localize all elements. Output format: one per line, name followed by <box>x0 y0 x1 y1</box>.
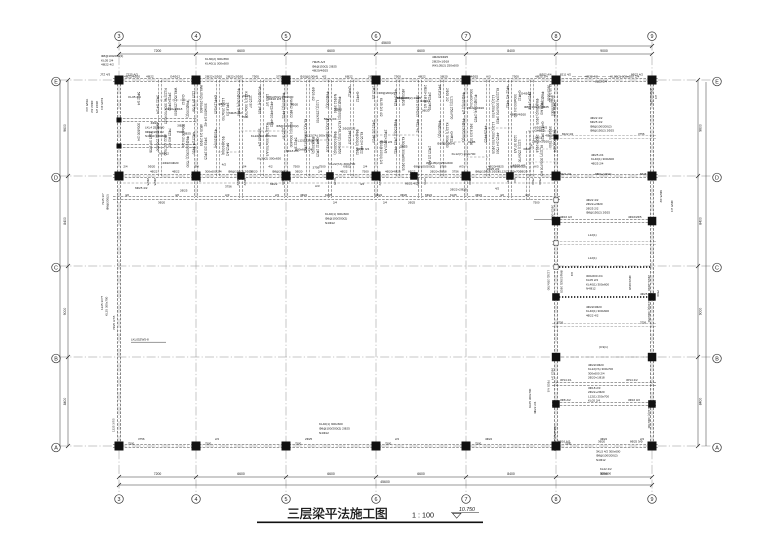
svg-text:4Φ22: 4Φ22 <box>236 178 240 186</box>
svg-text:3Φ20: 3Φ20 <box>177 124 185 128</box>
svg-text:KL12(7) 300x700: KL12(7) 300x700 <box>647 406 651 429</box>
svg-text:7500: 7500 <box>295 442 302 446</box>
svg-text:9854+(2914): 9854+(2914) <box>595 172 612 176</box>
svg-text:2Φ25 2/2: 2Φ25 2/2 <box>379 140 392 144</box>
svg-text:Φ10@100(4): Φ10@100(4) <box>437 142 455 146</box>
svg-text:1 : 100: 1 : 100 <box>412 511 434 520</box>
svg-text:L12(1) 250x700: L12(1) 250x700 <box>517 140 521 163</box>
svg-text:Φ10@100(4): Φ10@100(4) <box>300 74 318 78</box>
svg-text:Φ8@150(2) 2Φ25: Φ8@150(2) 2Φ25 <box>475 169 499 173</box>
svg-text:Φ10@100(4): Φ10@100(4) <box>221 136 225 155</box>
svg-text:7500: 7500 <box>128 442 135 446</box>
svg-text:4Φ22: 4Φ22 <box>300 193 308 197</box>
svg-text:L12(1) 250x700: L12(1) 250x700 <box>547 270 551 291</box>
svg-text:7500: 7500 <box>281 178 285 185</box>
svg-text:2Φ22+2Φ20: 2Φ22+2Φ20 <box>467 106 484 110</box>
svg-text:KL05 2/4 4/2: KL05 2/4 4/2 <box>379 98 383 117</box>
svg-text:2Φ22+2Φ20: 2Φ22+2Φ20 <box>205 74 222 78</box>
svg-text:2Φ25: 2Φ25 <box>368 74 376 78</box>
svg-text:3P14 4/1: 3P14 4/1 <box>560 378 572 382</box>
svg-text:3756: 3756 <box>138 437 145 441</box>
svg-text:2/4: 2/4 <box>640 437 644 441</box>
svg-text:KL12(7) 300x700: KL12(7) 300x700 <box>452 152 476 156</box>
svg-text:2Φ22+2Φ20: 2Φ22+2Φ20 <box>226 74 243 78</box>
svg-text:B: B <box>715 356 719 362</box>
svg-text:4/2: 4/2 <box>360 182 365 186</box>
svg-text:E: E <box>54 79 58 85</box>
svg-text:2/4: 2/4 <box>123 165 128 169</box>
svg-text:7500: 7500 <box>252 74 259 78</box>
svg-text:7500: 7500 <box>385 442 392 446</box>
svg-text:KL05 2/4: KL05 2/4 <box>100 98 104 110</box>
svg-text:C: C <box>715 265 719 271</box>
svg-text:WKL05(2) 250x600: WKL05(2) 250x600 <box>156 123 160 151</box>
svg-text:KL05: KL05 <box>450 193 457 197</box>
svg-text:9600: 9600 <box>63 124 67 132</box>
svg-text:3Φ8 A/2: 3Φ8 A/2 <box>560 398 571 402</box>
svg-text:4Φ22 4/2 4Φ22: 4Φ22 4/2 4Φ22 <box>506 86 510 109</box>
svg-text:7Φ25 A/3 4/2: 7Φ25 A/3 4/2 <box>167 128 171 147</box>
svg-text:300x600 2/4: 300x600 2/4 <box>137 123 141 141</box>
svg-text:7: 7 <box>465 34 468 40</box>
svg-text:L12(1) 250x700: L12(1) 250x700 <box>315 100 319 123</box>
svg-text:3Φ18 2/3: 3Φ18 2/3 <box>286 149 299 153</box>
svg-text:2/4: 2/4 <box>275 193 279 197</box>
svg-text:4Φ22 4/2: 4Φ22 4/2 <box>586 313 599 317</box>
svg-text:3Φ18 2/3 2Φ25: 3Φ18 2/3 2Φ25 <box>203 137 207 160</box>
svg-text:4Φ22 4/2: 4Φ22 4/2 <box>416 119 420 133</box>
svg-text:6Φ25 4/2: 6Φ25 4/2 <box>311 87 315 101</box>
svg-text:6600: 6600 <box>417 472 425 476</box>
svg-text:9: 9 <box>651 497 654 503</box>
svg-text:7200: 7200 <box>154 49 162 53</box>
svg-text:2Φ25: 2Φ25 <box>305 437 313 441</box>
svg-text:2/4: 2/4 <box>242 165 247 169</box>
svg-text:2/4: 2/4 <box>195 165 200 169</box>
svg-text:4Φ22: 4Φ22 <box>150 169 158 173</box>
svg-text:8: 8 <box>555 497 558 503</box>
svg-text:Φ8@200(2): Φ8@200(2) <box>106 194 110 210</box>
svg-text:3: 3 <box>118 497 121 503</box>
svg-text:2Φ22+2Φ20: 2Φ22+2Φ20 <box>450 188 467 192</box>
svg-text:3: 3 <box>118 34 121 40</box>
svg-text:3Φ20: 3Φ20 <box>440 74 448 78</box>
svg-text:8400: 8400 <box>63 398 67 406</box>
svg-text:Φ8@100/200(2) 7500: Φ8@100/200(2) 7500 <box>185 136 189 168</box>
svg-text:1225 3/7 3756: 1225 3/7 3756 <box>148 132 152 153</box>
svg-text:3Φ18 2/3: 3Φ18 2/3 <box>348 130 352 144</box>
svg-text:3756: 3756 <box>423 178 427 185</box>
svg-text:KL05 2/4: KL05 2/4 <box>588 399 600 403</box>
svg-text:Φ8@200(2) 2/4: Φ8@200(2) 2/4 <box>462 92 466 115</box>
svg-text:A: A <box>715 445 719 451</box>
svg-text:4Φ22: 4Φ22 <box>485 437 493 441</box>
svg-text:Φ8@100/200(2): Φ8@100/200(2) <box>333 131 337 154</box>
svg-text:2/4: 2/4 <box>215 437 219 441</box>
svg-text:Φ10@100(4) 3Φ20: Φ10@100(4) 3Φ20 <box>258 86 262 114</box>
svg-text:1225 3/7 A/3: 1225 3/7 A/3 <box>513 135 517 153</box>
svg-text:4Φ22: 4Φ22 <box>378 178 382 186</box>
svg-text:2Φ22+2Φ20: 2Φ22+2Φ20 <box>551 205 555 221</box>
svg-text:3Φ20: 3Φ20 <box>422 108 430 112</box>
svg-text:LKL05ZW5-8: LKL05ZW5-8 <box>131 338 149 342</box>
svg-text:4Φ20/4Φ25: 4Φ20/4Φ25 <box>312 69 328 73</box>
svg-text:Φ8@100/200(2): Φ8@100/200(2) <box>462 118 466 141</box>
svg-text:6Φ25 4/2: 6Φ25 4/2 <box>405 181 418 185</box>
svg-text:Φ8@150(2) 2Φ25: Φ8@150(2) 2Φ25 <box>590 129 614 133</box>
svg-text:3756: 3756 <box>276 74 283 78</box>
svg-text:9: 9 <box>651 34 654 40</box>
svg-text:KL22(7A) 300x700 A/3: KL22(7A) 300x700 A/3 <box>265 124 269 157</box>
svg-text:7500: 7500 <box>656 290 660 297</box>
svg-text:KL22(7A) 300x700 3Φ20: KL22(7A) 300x700 3Φ20 <box>495 88 499 124</box>
svg-text:1225 3/7/7: 1225 3/7/7 <box>100 295 104 310</box>
svg-text:KL30(2) 300x650: KL30(2) 300x650 <box>647 300 651 323</box>
svg-text:4/2: 4/2 <box>222 163 227 167</box>
svg-text:L12(1) 250x700 2Φ25: L12(1) 250x700 2Φ25 <box>491 122 495 154</box>
svg-text:Φ8@100/200(2) 2Φ25: Φ8@100/200(2) 2Φ25 <box>319 426 350 430</box>
svg-text:KL22(7A) 300x700: KL22(7A) 300x700 <box>305 133 331 137</box>
svg-text:9000: 9000 <box>600 49 608 53</box>
svg-text:3756: 3756 <box>225 185 232 189</box>
svg-text:2Φ25: 2Φ25 <box>180 188 188 192</box>
svg-text:4Φ16 4/2: 4Φ16 4/2 <box>560 215 572 219</box>
svg-text:7Φ25 A/3: 7Φ25 A/3 <box>547 380 551 393</box>
svg-text:4/2: 4/2 <box>175 193 179 197</box>
svg-text:Φ8@100/200(2) KL05: Φ8@100/200(2) KL05 <box>337 96 341 128</box>
svg-text:3Φ20: 3Φ20 <box>291 103 299 107</box>
svg-text:300x600: 300x600 <box>600 471 611 475</box>
svg-text:2Φ25: 2Φ25 <box>400 145 408 149</box>
svg-text:9600: 9600 <box>699 124 703 132</box>
svg-text:KL30(2) 300x650 2Φ25: KL30(2) 300x650 2Φ25 <box>401 137 405 171</box>
svg-text:8222 4/2: 8222 4/2 <box>562 132 574 136</box>
svg-text:WKL05(2) 250x600: WKL05(2) 250x600 <box>432 64 459 68</box>
svg-text:6Φ25 4/2: 6Φ25 4/2 <box>229 111 242 115</box>
svg-text:Φ8@100/200(2): Φ8@100/200(2) <box>414 165 436 169</box>
svg-text:Φ8@150(2) 2Φ25 4Φ22: Φ8@150(2) 2Φ25 4Φ22 <box>394 119 398 154</box>
svg-text:3P14 4/2: 3P14 4/2 <box>626 378 638 382</box>
svg-text:2Φ25 2/2 3Φ20: 2Φ25 2/2 3Φ20 <box>372 120 376 143</box>
svg-text:KL12(7) 300x700 A/3: KL12(7) 300x700 A/3 <box>539 145 543 176</box>
svg-text:6Φ22: 6Φ22 <box>345 74 353 78</box>
svg-text:7225 3/7: 7225 3/7 <box>101 193 105 205</box>
svg-text:6Φ22: 6Φ22 <box>408 169 416 173</box>
svg-text:Φ8@200(2): Φ8@200(2) <box>379 91 395 95</box>
svg-text:4Φ22/4Φ20: 4Φ22/4Φ20 <box>628 275 632 290</box>
svg-text:4/2: 4/2 <box>125 193 129 197</box>
svg-text:300x600 2/4: 300x600 2/4 <box>469 89 473 107</box>
svg-text:7500: 7500 <box>205 442 212 446</box>
svg-text:N4Φ12: N4Φ12 <box>159 151 169 155</box>
svg-text:2/4: 2/4 <box>654 95 658 99</box>
svg-text:4Φ22: 4Φ22 <box>418 74 426 78</box>
svg-text:3Φ20: 3Φ20 <box>520 169 528 173</box>
svg-text:8: 8 <box>555 34 558 40</box>
svg-text:3756: 3756 <box>640 320 647 324</box>
svg-text:8400: 8400 <box>699 398 703 406</box>
svg-text:G4Φ12: G4Φ12 <box>170 74 180 78</box>
svg-text:KL30(2) 300x650: KL30(2) 300x650 <box>257 156 281 160</box>
svg-text:Φ8@100/200(2): Φ8@100/200(2) <box>276 124 298 128</box>
svg-text:4/2: 4/2 <box>268 165 273 169</box>
svg-text:4Φ22: 4Φ22 <box>172 169 180 173</box>
svg-text:L12(1) 250x700: L12(1) 250x700 <box>298 139 320 143</box>
svg-text:1225 3/7/5: 1225 3/7/5 <box>112 418 116 432</box>
svg-text:6Φ22: 6Φ22 <box>243 178 247 186</box>
svg-text:L12(1) 250x700: L12(1) 250x700 <box>491 95 495 118</box>
svg-text:8Φ22 4/2: 8Φ22 4/2 <box>631 73 643 77</box>
svg-text:8Φ22 4/4: 8Φ22 4/4 <box>540 73 552 77</box>
svg-text:7200: 7200 <box>154 472 162 476</box>
svg-text:4Φ22: 4Φ22 <box>600 437 608 441</box>
svg-text:6: 6 <box>375 497 378 503</box>
svg-text:6Φ25 4/2: 6Φ25 4/2 <box>659 190 663 203</box>
svg-text:2Φ20+1Φ18: 2Φ20+1Φ18 <box>588 376 605 380</box>
svg-text:5Φ22 3/4: 5Φ22 3/4 <box>551 368 555 380</box>
svg-text:4Φ22 4/2: 4Φ22 4/2 <box>101 63 114 67</box>
svg-text:4Φ20/4Φ25: 4Φ20/4Φ25 <box>462 74 478 78</box>
svg-text:1225 3/7: 1225 3/7 <box>282 127 286 140</box>
svg-text:2Φ22+2Φ20: 2Φ22+2Φ20 <box>532 140 549 144</box>
svg-text:JTZ 4/3: JTZ 4/3 <box>100 73 111 77</box>
svg-text:(0.9(1): (0.9(1) <box>599 345 608 349</box>
svg-text:KL25 300x700: KL25 300x700 <box>105 296 109 316</box>
svg-text:6600: 6600 <box>327 472 335 476</box>
svg-text:3Φ20: 3Φ20 <box>158 201 166 205</box>
svg-text:L12(1): L12(1) <box>588 233 597 237</box>
svg-text:7500: 7500 <box>533 201 540 205</box>
svg-text:3Φ20: 3Φ20 <box>148 165 156 169</box>
svg-text:8222 2/4: 8222 2/4 <box>595 80 607 84</box>
svg-text:7500: 7500 <box>362 169 369 173</box>
svg-text:7500: 7500 <box>475 442 482 446</box>
svg-text:G4Φ12: G4Φ12 <box>535 129 545 133</box>
svg-text:300x600 2/4: 300x600 2/4 <box>205 169 222 173</box>
svg-text:3Φ20: 3Φ20 <box>295 169 303 173</box>
svg-text:2Φ22+2Φ20: 2Φ22+2Φ20 <box>547 85 551 101</box>
svg-text:Φ8@200(2): Φ8@200(2) <box>438 120 442 137</box>
svg-text:G4Φ12: G4Φ12 <box>420 99 430 103</box>
svg-text:2Φ25: 2Φ25 <box>153 178 157 186</box>
svg-text:N4Φ12: N4Φ12 <box>319 431 329 435</box>
svg-text:4: 4 <box>195 34 198 40</box>
svg-text:2Φ25 2/2: 2Φ25 2/2 <box>372 86 376 100</box>
svg-text:3756: 3756 <box>440 165 447 169</box>
svg-text:4Φ25 2/4: 4Φ25 2/4 <box>591 161 604 165</box>
svg-text:N4Φ12: N4Φ12 <box>596 458 606 462</box>
svg-text:4Φ22: 4Φ22 <box>151 121 159 125</box>
svg-text:WKL05(2) 250x600: WKL05(2) 250x600 <box>174 88 178 116</box>
svg-text:4/2: 4/2 <box>198 178 202 183</box>
svg-text:KL05: KL05 <box>325 193 332 197</box>
svg-text:A/3: A/3 <box>315 184 320 188</box>
svg-text:2/4: 2/4 <box>333 201 337 205</box>
svg-text:7: 7 <box>465 497 468 503</box>
svg-text:G4Φ12: G4Φ12 <box>521 91 531 95</box>
svg-text:7500: 7500 <box>177 130 184 134</box>
svg-text:2Φ20+1Φ18 4/2: 2Φ20+1Φ18 4/2 <box>423 85 427 109</box>
svg-text:9000: 9000 <box>63 308 67 316</box>
svg-text:45600: 45600 <box>380 480 390 484</box>
svg-text:4Φ22: 4Φ22 <box>475 193 483 197</box>
svg-text:7500: 7500 <box>468 178 472 185</box>
svg-text:4/2: 4/2 <box>525 193 529 197</box>
svg-text:7Φ25 3/7/5: 7Φ25 3/7/5 <box>112 315 116 330</box>
svg-text:6600: 6600 <box>237 472 245 476</box>
svg-text:7500: 7500 <box>565 442 572 446</box>
svg-text:5525: 5525 <box>640 172 647 176</box>
svg-text:2Φ25: 2Φ25 <box>183 131 191 135</box>
svg-text:KL05: KL05 <box>468 140 476 144</box>
svg-text:7Φ25 A/3: 7Φ25 A/3 <box>85 99 89 112</box>
svg-text:A/3: A/3 <box>513 178 517 183</box>
svg-text:6Φ22: 6Φ22 <box>343 165 351 169</box>
svg-text:4Φ22 4/2: 4Φ22 4/2 <box>90 100 94 113</box>
svg-text:N4Φ12 6Φ22: N4Φ12 6Φ22 <box>289 98 293 117</box>
svg-text:L12(1) 250x700: L12(1) 250x700 <box>449 96 453 119</box>
svg-text:4Φ22: 4Φ22 <box>375 193 383 197</box>
svg-text:Φ8@200(2): Φ8@200(2) <box>272 169 288 173</box>
svg-text:4/2: 4/2 <box>506 178 510 183</box>
svg-text:6Φ22: 6Φ22 <box>270 182 278 186</box>
svg-text:C: C <box>54 265 58 271</box>
svg-text:Φ8@200(2): Φ8@200(2) <box>185 100 189 117</box>
svg-text:7225 A/3: 7225 A/3 <box>126 73 138 77</box>
svg-text:A/3: A/3 <box>225 193 230 197</box>
svg-text:3Φ18 2/3: 3Φ18 2/3 <box>95 101 99 114</box>
svg-text:L1(K1): L1(K1) <box>533 136 542 140</box>
svg-text:4Φ25 2/4: 4Φ25 2/4 <box>670 200 674 212</box>
svg-text:6600: 6600 <box>327 49 335 53</box>
svg-text:A/3: A/3 <box>570 272 574 277</box>
svg-text:6Φ22: 6Φ22 <box>425 193 433 197</box>
svg-text:Φ8@150(2) 2Φ25: Φ8@150(2) 2Φ25 <box>524 105 549 109</box>
svg-text:N4Φ12: N4Φ12 <box>586 287 596 291</box>
svg-text:4Φ20/4Φ25: 4Φ20/4Φ25 <box>484 126 488 143</box>
svg-text:4Φ22: 4Φ22 <box>340 169 348 173</box>
svg-text:4Φ22: 4Φ22 <box>218 102 226 106</box>
svg-text:2Φ25: 2Φ25 <box>408 201 416 205</box>
svg-text:Φ8@150(2) 2Φ25: Φ8@150(2) 2Φ25 <box>228 169 252 173</box>
svg-text:2Φ25: 2Φ25 <box>146 178 150 186</box>
svg-text:Φ10@100(4): Φ10@100(4) <box>214 129 218 148</box>
svg-text:Φ8@200(2): Φ8@200(2) <box>510 165 526 169</box>
svg-text:WKL05(2) 250x600: WKL05(2) 250x600 <box>267 95 294 99</box>
svg-text:2/4: 2/4 <box>383 201 387 205</box>
svg-text:3756: 3756 <box>638 132 645 136</box>
svg-text:2/4: 2/4 <box>288 178 292 183</box>
svg-text:2Φ22+2Φ20: 2Φ22+2Φ20 <box>647 275 651 291</box>
svg-text:WKL05(2) 250x600: WKL05(2) 250x600 <box>553 426 557 451</box>
svg-text:WKL05(2) 250x600: WKL05(2) 250x600 <box>199 85 203 113</box>
svg-text:KL40(1) 300x600: KL40(1) 300x600 <box>205 61 229 65</box>
svg-text:KL22(7A) 300x700: KL22(7A) 300x700 <box>251 134 277 138</box>
svg-text:4/2: 4/2 <box>495 186 500 190</box>
svg-text:6600: 6600 <box>237 49 245 53</box>
svg-text:4Φ22 4/2: 4Φ22 4/2 <box>545 133 558 137</box>
svg-text:E: E <box>715 79 719 85</box>
svg-text:4/2: 4/2 <box>500 193 504 197</box>
svg-text:KL30(2) 300x650: KL30(2) 300x650 <box>337 129 341 154</box>
svg-text:4Φ25 2/4: 4Φ25 2/4 <box>640 292 653 296</box>
svg-text:7500: 7500 <box>512 74 519 78</box>
svg-text:2Φ25: 2Φ25 <box>242 94 250 98</box>
svg-text:8400: 8400 <box>507 49 515 53</box>
svg-text:45600: 45600 <box>381 41 391 45</box>
svg-text:7500: 7500 <box>394 74 401 78</box>
svg-text:7500: 7500 <box>267 122 274 126</box>
svg-text:2Φ25 2/2: 2Φ25 2/2 <box>343 127 356 131</box>
svg-text:4Φ20/4Φ25: 4Φ20/4Φ25 <box>385 169 401 173</box>
svg-text:7500: 7500 <box>241 115 248 119</box>
svg-text:3756: 3756 <box>557 320 564 324</box>
svg-text:4Φ22/4Φ20: 4Φ22/4Φ20 <box>162 161 178 165</box>
svg-text:8400: 8400 <box>507 472 515 476</box>
svg-text:4/2: 4/2 <box>322 74 327 78</box>
svg-text:5Φ22 3/4: 5Φ22 3/4 <box>356 147 369 151</box>
svg-text:A/3: A/3 <box>459 165 464 169</box>
svg-text:KL40(1) 300x600: KL40(1) 300x600 <box>319 422 343 426</box>
svg-text:N4Φ12: N4Φ12 <box>325 221 335 225</box>
svg-text:G4Φ12: G4Φ12 <box>348 86 352 97</box>
svg-text:Φ8@200(2) 4Φ22: Φ8@200(2) 4Φ22 <box>355 129 359 155</box>
svg-text:5: 5 <box>285 497 288 503</box>
svg-text:Φ8@100/200(2): Φ8@100/200(2) <box>551 95 555 116</box>
svg-text:300x600 2/4: 300x600 2/4 <box>650 88 654 105</box>
svg-text:KL05 300x700: KL05 300x700 <box>528 388 532 408</box>
svg-text:Φ8@150(2) 2Φ25: Φ8@150(2) 2Φ25 <box>535 99 539 125</box>
svg-text:4Φ25 2/4 7500: 4Φ25 2/4 7500 <box>495 132 499 154</box>
svg-text:8221 4/2: 8221 4/2 <box>560 172 572 176</box>
svg-text:6Φ25 4/2: 6Φ25 4/2 <box>225 143 229 157</box>
svg-text:A/3: A/3 <box>534 165 539 169</box>
svg-text:8400: 8400 <box>63 217 67 225</box>
svg-text:KL40(1) 300x600: KL40(1) 300x600 <box>325 212 349 216</box>
svg-text:3Φ20: 3Φ20 <box>334 107 342 111</box>
svg-text:3Φ16 3/2: 3Φ16 3/2 <box>628 398 640 402</box>
svg-text:2Φ20+1Φ18: 2Φ20+1Φ18 <box>430 169 447 173</box>
svg-text:4/2: 4/2 <box>530 144 534 148</box>
svg-text:5Φ22 3/4: 5Φ22 3/4 <box>324 117 337 121</box>
svg-text:B: B <box>54 356 58 362</box>
svg-text:4Φ22 2/4: 4Φ22 2/4 <box>533 401 537 414</box>
svg-text:Φ8@150(2) 2Φ25: Φ8@150(2) 2Φ25 <box>396 96 421 100</box>
svg-text:7500: 7500 <box>538 178 542 185</box>
svg-text:Φ8@150(2) 2Φ25: Φ8@150(2) 2Φ25 <box>586 211 610 215</box>
svg-text:2/4: 2/4 <box>318 169 323 173</box>
svg-text:A: A <box>54 445 58 451</box>
svg-text:A/3: A/3 <box>486 74 491 78</box>
svg-text:8211 4/2: 8211 4/2 <box>560 73 571 77</box>
svg-text:6: 6 <box>375 34 378 40</box>
svg-text:5Φ22 3/4 2/4: 5Φ22 3/4 2/4 <box>156 95 160 114</box>
svg-text:KL05 2/4: KL05 2/4 <box>128 95 141 99</box>
svg-text:3Φ18 2/3: 3Φ18 2/3 <box>438 85 442 99</box>
svg-text:G4Φ12 KL05: G4Φ12 KL05 <box>214 95 218 114</box>
svg-text:7500: 7500 <box>319 165 326 169</box>
svg-text:KL12(7) 300x700: KL12(7) 300x700 <box>498 169 521 173</box>
svg-text:2/4: 2/4 <box>363 165 368 169</box>
svg-text:3756: 3756 <box>452 169 459 173</box>
svg-text:2Φ25 2/2: 2Φ25 2/2 <box>445 88 449 102</box>
svg-text:G4Φ12: G4Φ12 <box>449 131 453 142</box>
svg-text:6600: 6600 <box>417 49 425 53</box>
svg-text:Φ8@200(2): Φ8@200(2) <box>326 91 330 108</box>
svg-text:KL05: KL05 <box>333 178 337 185</box>
svg-text:7500: 7500 <box>531 178 535 185</box>
svg-text:Φ8@100/200(2): Φ8@100/200(2) <box>325 216 347 220</box>
